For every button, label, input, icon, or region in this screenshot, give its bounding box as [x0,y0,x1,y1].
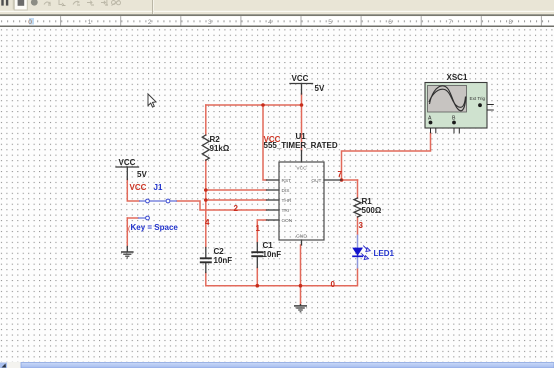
svg-text:A: A [428,116,432,122]
svg-text:XSC1: XSC1 [447,73,468,82]
svg-text:91kΩ: 91kΩ [210,144,230,153]
svg-text:R2: R2 [210,135,221,144]
svg-text:500Ω: 500Ω [362,206,382,215]
svg-text:THR: THR [282,198,292,204]
svg-text:8: 8 [508,19,512,26]
svg-text:VCC: VCC [292,74,309,83]
svg-text:CON: CON [282,218,293,224]
svg-text:5V: 5V [315,84,325,93]
svg-text:Key = Space: Key = Space [131,223,179,232]
svg-text:R1: R1 [362,197,373,206]
svg-text:VCC: VCC [296,165,307,171]
svg-text:0: 0 [28,19,32,26]
svg-text:4: 4 [205,218,210,227]
svg-text:C2: C2 [214,247,225,256]
svg-text:U1: U1 [296,132,307,141]
svg-text:6: 6 [388,19,392,26]
svg-text:0: 0 [331,280,336,289]
svg-text:TRI: TRI [282,208,290,214]
svg-text:DIS: DIS [282,188,290,194]
svg-text:2: 2 [148,19,152,26]
svg-text:C1: C1 [263,241,274,250]
svg-text:Ext Trig: Ext Trig [470,96,486,101]
svg-text:RST: RST [282,178,292,184]
svg-text:5: 5 [328,19,332,26]
svg-text:OUT: OUT [311,178,321,184]
svg-text:10nF: 10nF [214,256,233,265]
svg-text:3: 3 [359,221,364,230]
svg-text:GND: GND [296,234,307,240]
svg-text:3: 3 [208,19,212,26]
svg-text:J1: J1 [154,183,163,192]
svg-text:VCC: VCC [264,135,281,144]
svg-text:1: 1 [256,224,261,233]
svg-text:2: 2 [234,204,239,213]
svg-text:4: 4 [268,19,272,26]
svg-text:VCC: VCC [119,158,136,167]
svg-text:10nF: 10nF [263,250,282,259]
svg-text:LED1: LED1 [374,249,395,258]
svg-text:7: 7 [448,19,452,26]
svg-text:B: B [452,116,456,122]
svg-text:5V: 5V [137,170,147,179]
svg-text:7: 7 [338,170,343,179]
svg-text:VCC: VCC [130,183,147,192]
svg-text:1: 1 [88,19,92,26]
